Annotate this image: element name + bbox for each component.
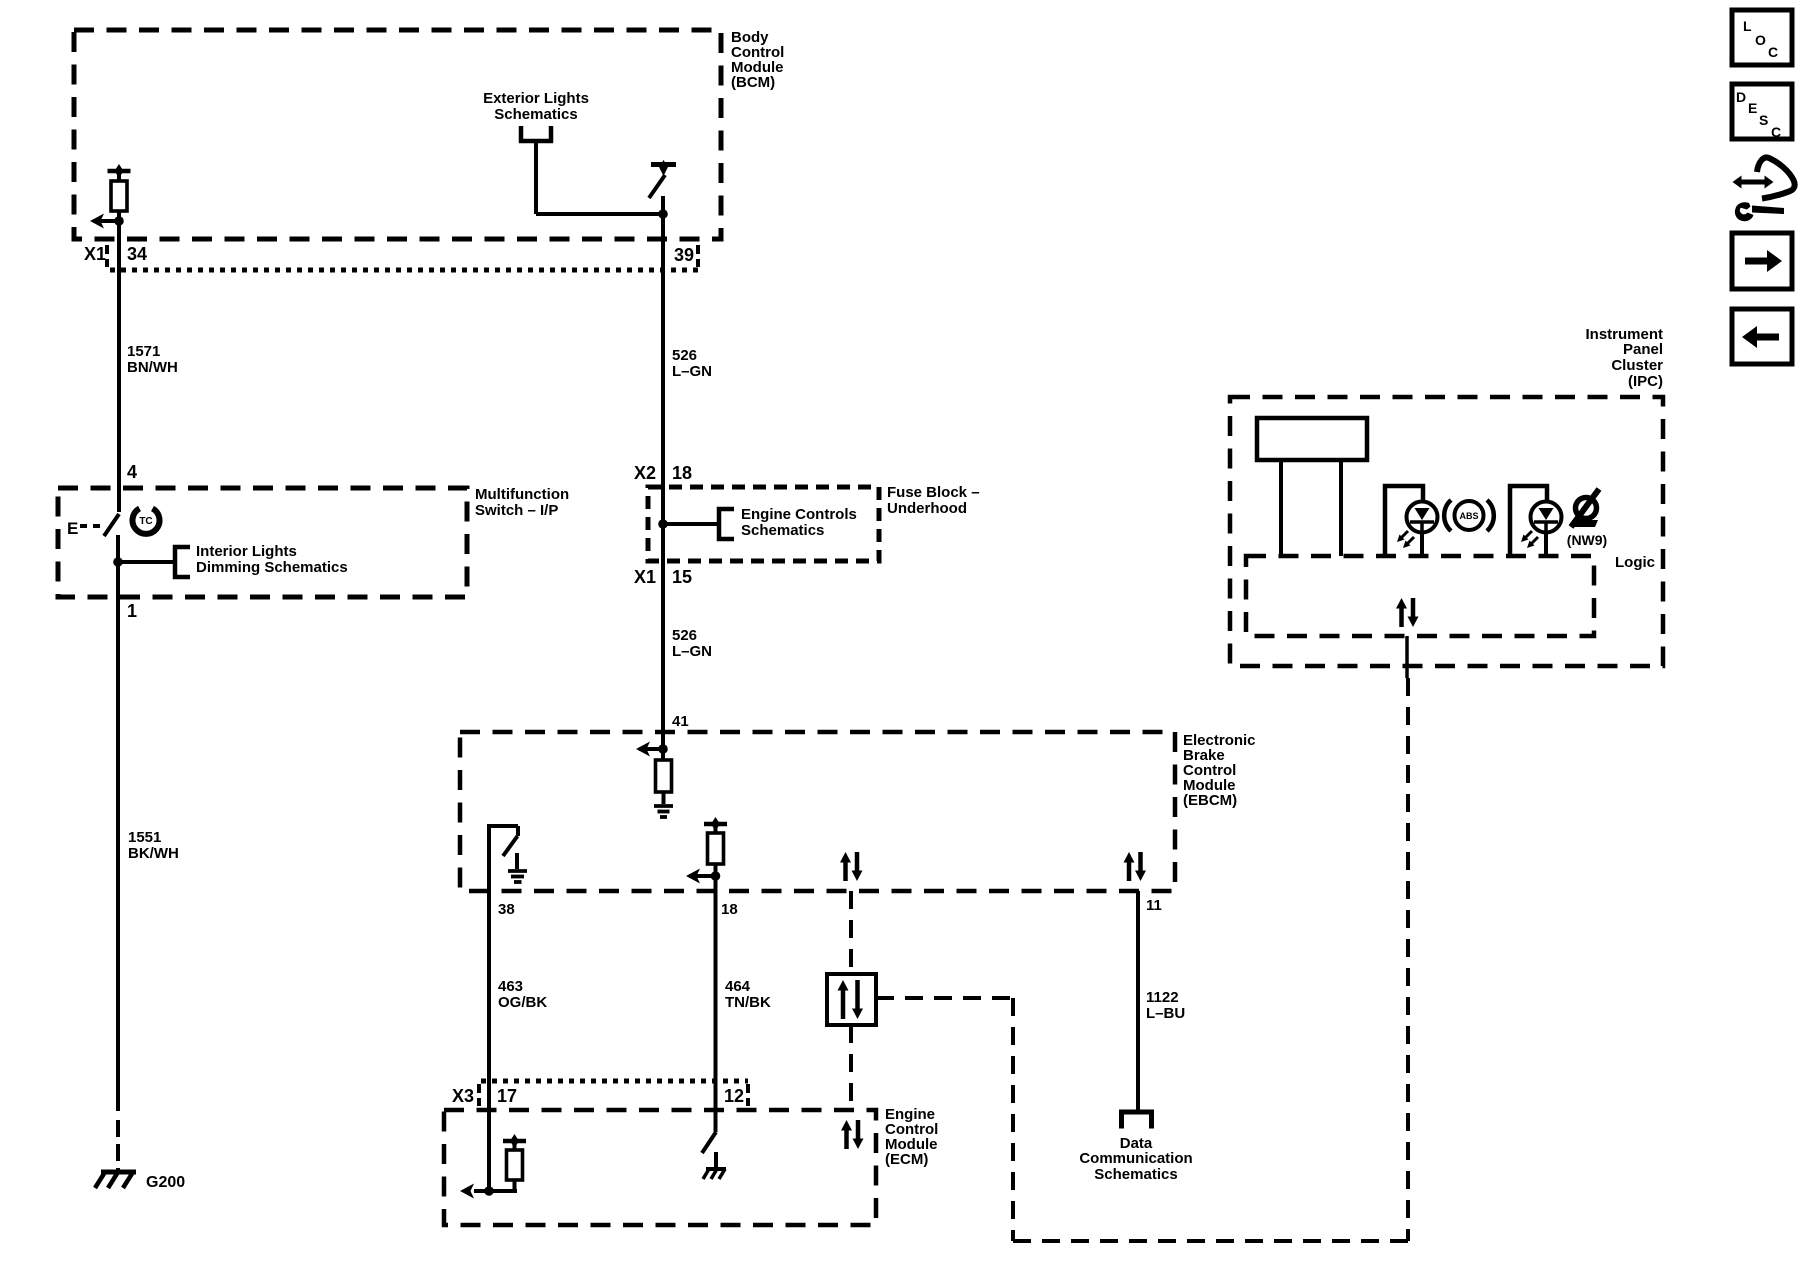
svg-text:11: 11 (1146, 897, 1162, 914)
dashed data wire: down to data bus (1011, 998, 1015, 1241)
in-line connector (dotted) above ECM (481, 1079, 748, 1084)
ground (chassis) inside ECM (706, 1167, 726, 1171)
LED 1 light arrows (1399, 531, 1408, 540)
button: DESC (1732, 84, 1792, 139)
svg-text:C: C (1771, 124, 1781, 140)
wire: Exterior Lights bracket to switch node (534, 141, 538, 214)
junction at EBCM pin 41 (658, 744, 668, 754)
wire: EBCM pin 38 to ECM X3-17 (circuit 463 OG/BK) (487, 891, 491, 1110)
svg-text:39: 39 (674, 245, 694, 265)
svg-text:ABS: ABS (1459, 511, 1478, 521)
svg-text:Schematics: Schematics (1094, 1166, 1177, 1183)
wire: LED2 to logic box (1544, 532, 1548, 556)
junction at ECM pin 17 (484, 1186, 494, 1196)
wire: BCM pin 39 to fuse block (circuit 526 L-GN) (661, 239, 665, 487)
wire: T-bar to resistor (pin18) (714, 824, 718, 833)
junction at BCM switch output (658, 209, 668, 219)
data link connector symbol (boxed arrows) (827, 974, 876, 1025)
svg-text:Switch – I/P: Switch – I/P (475, 502, 558, 519)
dashed data wire: node box to junction right (876, 996, 1013, 1000)
svg-text:Schematics: Schematics (741, 522, 824, 539)
wire: BCM pin 34 down to multifunction switch (circuit 1571 BN/WH) (117, 239, 121, 512)
serial data arrows inside ECM (844, 1131, 849, 1150)
svg-text:34: 34 (127, 244, 147, 264)
svg-text:E: E (67, 519, 78, 538)
LED 2 light arrows (1523, 531, 1532, 540)
svg-text:E: E (1748, 100, 1757, 116)
wire: resistor to signal ground (662, 792, 666, 804)
junction: tap to Engine Controls Schematics (658, 519, 668, 529)
module box: Fuse Block - Underhood (648, 487, 879, 561)
dashed data wire: node box down to ECM (849, 1025, 853, 1110)
svg-text:Communication: Communication (1079, 1150, 1192, 1167)
svg-text:1551: 1551 (128, 829, 161, 846)
wire: resistor bottom to junction line (513, 1180, 517, 1191)
switch to ground inside EBCM (pin 38 driver): wire (487, 824, 491, 891)
svg-text:D: D (1736, 89, 1746, 105)
ground (signal) bars under pin38 switch (508, 869, 527, 873)
svg-text:Dimming Schematics: Dimming Schematics (196, 559, 348, 576)
svg-text:526: 526 (672, 627, 697, 644)
wire: tap to Engine Controls bracket (663, 522, 719, 526)
button: forward arrow (1732, 233, 1792, 289)
wire: T-bar to resistor (ECM) (513, 1141, 517, 1150)
node: Data Communication Schematics bracket (1122, 1112, 1152, 1129)
svg-text:X3: X3 (452, 1086, 474, 1106)
wire: junction line with arrow out (474, 1189, 517, 1193)
wire: tap to Interior Lights bracket (118, 560, 175, 564)
icon: schematic navigation (arrows and wrench) (1757, 158, 1795, 199)
icon: TC (traction control) tire symbol (133, 509, 160, 534)
svg-text:TC: TC (139, 516, 152, 527)
resistor in ECM (pin 17 bias): T-bar terminal (503, 1139, 526, 1144)
module box: Engine Control Module (ECM) (444, 1110, 876, 1225)
resistor: EBCM pin 41 pull-up (656, 760, 672, 792)
svg-text:BK/WH: BK/WH (128, 845, 179, 862)
module box: Body Control Module (BCM) (74, 30, 721, 239)
wire: resistor to pin 18 with arrow (714, 864, 718, 891)
serial data arrows inside EBCM (right pair, pin 11) (1127, 863, 1132, 882)
svg-text:Interior Lights: Interior Lights (196, 543, 297, 560)
svg-text:(IPC): (IPC) (1628, 373, 1663, 390)
LED 1 (ABS telltale) (1407, 502, 1438, 533)
svg-text:38: 38 (498, 901, 515, 918)
wire: EBCM pin 41 into module (661, 732, 665, 760)
button: back arrow (1732, 309, 1792, 364)
arrow: signal inside ECM pin 17 (460, 1184, 474, 1199)
svg-text:15: 15 (672, 567, 692, 587)
svg-text:L–GN: L–GN (672, 643, 712, 660)
svg-text:463: 463 (498, 978, 523, 995)
button: LOC (1732, 10, 1792, 65)
svg-text:17: 17 (497, 1086, 517, 1106)
resistor in BCM above pin 34: top T-bar terminal (108, 169, 131, 174)
svg-text:41: 41 (672, 713, 689, 730)
svg-text:TN/BK: TN/BK (725, 994, 771, 1011)
arrow: signal direction out of BCM pin 34 (93, 219, 119, 223)
dashed data wire: bus bottom run to IPC drop (1013, 1239, 1408, 1243)
svg-text:1: 1 (127, 601, 137, 621)
svg-text:Multifunction: Multifunction (475, 486, 569, 503)
ground (chassis) inside ECM: stub (714, 1152, 718, 1169)
module box: Electronic Brake Control Module (EBCM) (460, 732, 1175, 891)
wire: ECM pin 12 into module (714, 1110, 718, 1132)
svg-text:464: 464 (725, 978, 751, 995)
svg-text:X1: X1 (634, 567, 656, 587)
connector separator left (X1|34) (105, 245, 109, 267)
connector separator right of 39 (696, 245, 700, 267)
wire: display right leg to logic (1339, 460, 1343, 556)
svg-text:Cluster: Cluster (1611, 357, 1663, 374)
wire: dashed continuation to ground (116, 1120, 120, 1137)
dashed data wire: EBCM to data link node (849, 891, 853, 974)
wire: multifunction switch pin 1 to G200 (circuit 1551 BK/WH) (116, 597, 120, 1111)
svg-text:L: L (1743, 18, 1752, 34)
svg-text:Panel: Panel (1623, 341, 1663, 358)
wire: logic serial data down (1405, 636, 1409, 678)
ground (signal) under pin38 switch: stub (515, 853, 519, 869)
wire: fuse block X1-15 to EBCM pin 41 (circuit 526 L-GN) (661, 561, 665, 732)
resistor (BCM internal, pin 34 drive) (111, 181, 127, 211)
wire: display left leg to logic (1279, 460, 1283, 556)
icon: (ABS) warning symbol (1444, 500, 1451, 531)
switch blade (open) of pin 38 driver (516, 826, 520, 836)
svg-text:O: O (1755, 32, 1766, 48)
node: Engine Controls Schematics bracket (719, 509, 734, 539)
svg-text:(EBCM): (EBCM) (1183, 792, 1237, 809)
wire: EBCM pin 11 serial data (circuit 1122 L-BU) (1136, 891, 1140, 1111)
svg-text:Underhood: Underhood (887, 500, 967, 517)
svg-text:(NW9): (NW9) (1567, 532, 1607, 548)
connector separator (X3|17) (477, 1084, 481, 1106)
node: Exterior Lights Schematics off-page bracket (521, 126, 551, 141)
in-line harness connector (dotted) under BCM (110, 268, 699, 273)
svg-text:1122: 1122 (1146, 989, 1179, 1006)
svg-text:X2: X2 (634, 463, 656, 483)
wire: resistor to pin 34 with left arrow (117, 211, 121, 239)
svg-text:C: C (1768, 44, 1778, 60)
ground G200 (chassis) (101, 1170, 136, 1175)
indicator LED 2 (TC) feed bracket (1510, 486, 1547, 556)
svg-text:(ECM): (ECM) (885, 1151, 928, 1168)
wire: through fuse block (661, 487, 665, 561)
ground (signal) inside EBCM (654, 804, 673, 808)
wire: ECM pin 17 into module (487, 1110, 491, 1191)
wire: switch to BCM pin 39 (661, 196, 665, 239)
wire: T-bar to resistor (117, 171, 121, 181)
switch blade in multifunction switch (TC switch, open) (104, 514, 119, 536)
svg-text:Engine Controls: Engine Controls (741, 506, 857, 523)
module box: Instrument Panel Cluster (IPC) (1230, 397, 1663, 666)
svg-text:BN/WH: BN/WH (127, 359, 178, 376)
svg-text:(BCM): (BCM) (731, 74, 775, 91)
resistor: EBCM pin 18 pull-up: T-bar terminal (704, 822, 727, 827)
svg-text:Schematics: Schematics (494, 106, 577, 123)
svg-text:L–GN: L–GN (672, 363, 712, 380)
indicator LED 1 (ABS) feed bracket (1385, 486, 1423, 556)
connector separator right of 12 (746, 1084, 750, 1106)
LED 2 (traction control telltale) (1531, 502, 1562, 533)
display element in IPC (1257, 418, 1367, 460)
svg-text:L–BU: L–BU (1146, 1005, 1185, 1022)
logic box inside IPC (1246, 556, 1594, 636)
serial data arrows inside EBCM (left pair) (843, 863, 848, 882)
arrow: signal out of EBCM pin 18 (689, 874, 716, 878)
svg-text:OG/BK: OG/BK (498, 994, 547, 1011)
switch blade (open) (649, 175, 665, 198)
switch in BCM (output 39): fixed contact T-bar (651, 162, 676, 167)
icon: TC-off telltale (NW9) (1576, 498, 1597, 519)
module box: Multifunction Switch - I/P (58, 488, 467, 597)
serial data arrows inside IPC logic (1399, 609, 1404, 628)
svg-text:Exterior Lights: Exterior Lights (483, 90, 589, 107)
svg-text:4: 4 (127, 462, 137, 482)
node: Interior Lights Dimming Schematics bracket (175, 547, 190, 577)
svg-text:1571: 1571 (127, 343, 160, 360)
junction at EBCM pin 18 (711, 871, 721, 881)
junction to Interior Lights Dimming tap (113, 557, 123, 567)
svg-text:18: 18 (672, 463, 692, 483)
svg-text:S: S (1759, 112, 1768, 128)
wire: EBCM pin 18 to ECM X3-12 (circuit 464 TN/BK) (714, 891, 718, 1110)
junction at BCM pin 34 arrow (114, 216, 124, 226)
svg-text:Fuse Block –: Fuse Block – (887, 484, 980, 501)
resistor (ECM pin 17 bias) (507, 1150, 523, 1180)
switch blade in ECM (pin 12 driver, open) (702, 1132, 716, 1153)
svg-text:X1: X1 (84, 244, 106, 264)
svg-text:G200: G200 (146, 1174, 185, 1191)
svg-text:526: 526 (672, 347, 697, 364)
dashed data wire: IPC drop down to bus (1406, 678, 1410, 1241)
svg-text:12: 12 (724, 1086, 744, 1106)
wire: switch blade pivot down to pin 1 (116, 535, 120, 597)
resistor (EBCM pin 18) (708, 833, 724, 864)
svg-text:Logic: Logic (1615, 554, 1655, 571)
svg-text:18: 18 (721, 901, 738, 918)
wire: LED1 to logic box (1420, 532, 1424, 556)
arrow: signal into EBCM at pin 41 (639, 747, 663, 751)
